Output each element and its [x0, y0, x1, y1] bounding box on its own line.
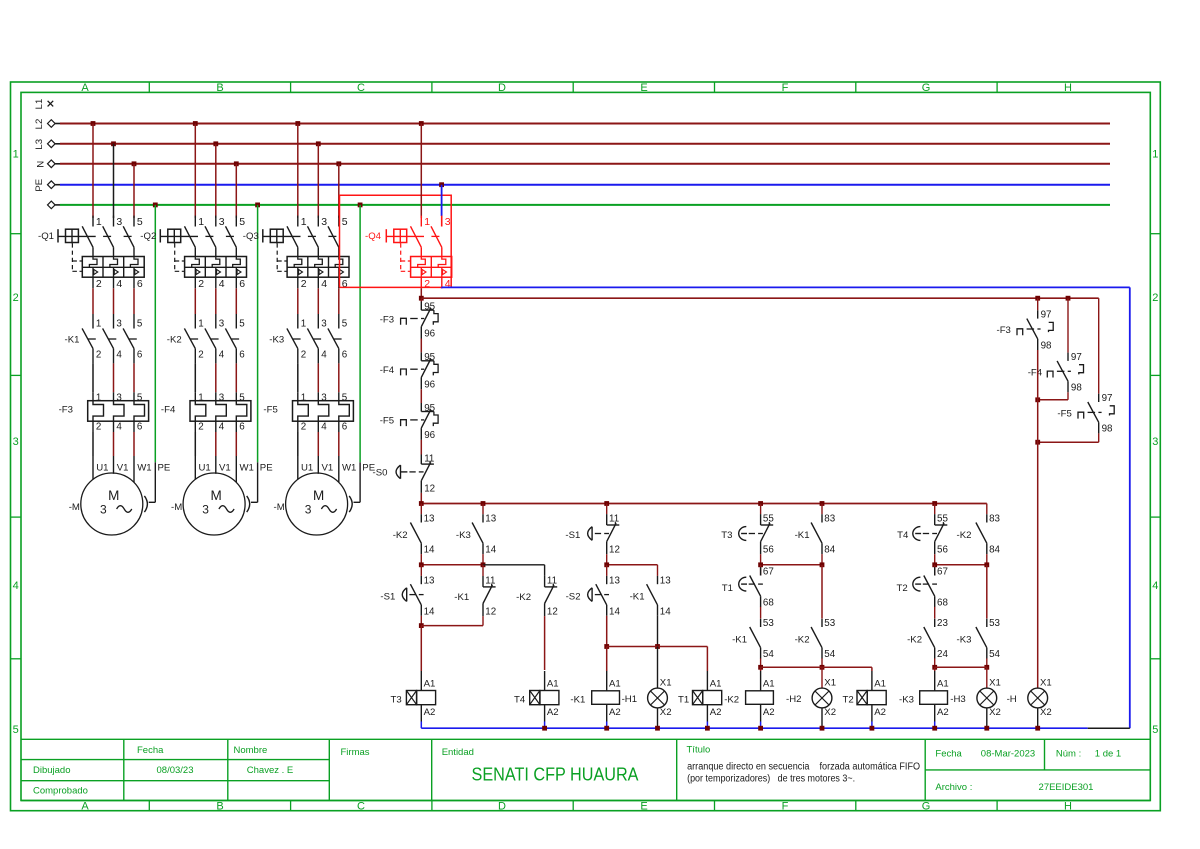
circuit breaker Q3 — [243, 216, 349, 290]
thermal overload relay F4 — [161, 392, 251, 432]
wire Q2 to K2 — [195, 288, 236, 328]
svg-text:53: 53 — [989, 618, 1000, 629]
junction wire K2 coil group — [758, 665, 872, 671]
svg-text:11: 11 — [424, 454, 434, 465]
svg-text:Comprobado: Comprobado — [33, 786, 88, 797]
svg-text:54: 54 — [989, 649, 1000, 660]
svg-text:A: A — [81, 801, 89, 813]
svg-text:A1: A1 — [547, 679, 559, 690]
wire PE drop to motor M2 — [251, 203, 273, 503]
svg-text:-S1: -S1 — [565, 530, 580, 541]
svg-text:14: 14 — [424, 606, 435, 617]
lamp H2 — [786, 678, 836, 729]
wire L2 drop to Q3 pin1 — [295, 121, 300, 218]
bus ground green — [48, 201, 1111, 209]
stop contact S1 11-12 row1 — [565, 504, 620, 565]
svg-text:-S1: -S1 — [380, 592, 395, 603]
svg-text:-K2: -K2 — [393, 530, 408, 541]
svg-text:4: 4 — [13, 580, 19, 592]
wire F5 to motor M3 — [298, 421, 357, 482]
wire K2 to F4 — [195, 363, 236, 400]
svg-text:11: 11 — [485, 576, 495, 587]
wire PE drop to motor M1 — [149, 203, 171, 503]
svg-text:M: M — [313, 488, 324, 503]
bus L2 — [34, 119, 1110, 130]
svg-text:98: 98 — [1071, 383, 1082, 394]
svg-text:1: 1 — [13, 149, 19, 161]
svg-text:2: 2 — [301, 350, 306, 361]
svg-text:Dibujado: Dibujado — [33, 765, 71, 776]
svg-text:-S0: -S0 — [373, 468, 388, 479]
wire Q4 pin2 down to control circuit — [420, 288, 422, 298]
timer contact T4 55-56 row1 — [897, 504, 948, 565]
motor M3 — [274, 473, 348, 535]
wire K1 to F3 — [93, 363, 134, 400]
red highlight box around Q4 — [340, 195, 452, 287]
svg-text:4: 4 — [219, 350, 225, 361]
thermal contact F5 95-96 — [380, 403, 438, 441]
svg-text:1: 1 — [301, 392, 306, 403]
svg-text:98: 98 — [1102, 424, 1113, 435]
svg-text:4: 4 — [116, 350, 122, 361]
svg-text:T4: T4 — [514, 695, 526, 706]
svg-text:2: 2 — [198, 278, 204, 290]
svg-text:-K3: -K3 — [456, 530, 471, 541]
svg-text:A1: A1 — [937, 679, 949, 690]
svg-text:L1: L1 — [34, 99, 45, 110]
circuit breaker Q4 — [365, 216, 452, 290]
svg-text:83: 83 — [989, 514, 1000, 525]
svg-text:A2: A2 — [937, 707, 949, 718]
svg-text:F: F — [782, 801, 789, 813]
svg-text:Fecha: Fecha — [137, 745, 164, 756]
thermal overload relay F5 — [263, 392, 353, 432]
svg-text:X1: X1 — [824, 678, 836, 689]
svg-text:1: 1 — [96, 392, 101, 403]
svg-text:-M: -M — [171, 502, 182, 513]
svg-text:A1: A1 — [874, 679, 886, 690]
svg-text:67: 67 — [763, 567, 774, 578]
wire F5 96 to S0 11 — [420, 440, 422, 464]
svg-text:6: 6 — [342, 278, 348, 290]
stop pushbutton S0 11-12 — [373, 454, 436, 495]
svg-text:2: 2 — [424, 278, 430, 290]
svg-text:5: 5 — [13, 724, 19, 736]
svg-text:4: 4 — [321, 350, 327, 361]
svg-text:3: 3 — [219, 319, 225, 330]
svg-text:2: 2 — [96, 350, 101, 361]
title block date and number — [935, 749, 1121, 794]
svg-text:1: 1 — [198, 216, 204, 228]
svg-text:6: 6 — [239, 350, 245, 361]
thermal contact F5 97-98 — [1057, 298, 1114, 435]
svg-text:X1: X1 — [989, 678, 1001, 689]
junction wire K3 coil group — [932, 665, 989, 670]
motor M1 PE terminal bracket — [144, 496, 147, 512]
svg-text:-F4: -F4 — [161, 405, 176, 416]
wire F3 96 to F4 95 — [420, 339, 422, 361]
svg-text:A2: A2 — [874, 707, 886, 718]
svg-text:G: G — [922, 801, 931, 813]
svg-text:1: 1 — [301, 216, 307, 228]
svg-text:4: 4 — [219, 278, 225, 290]
svg-text:X2: X2 — [824, 707, 836, 718]
svg-text:Nombre: Nombre — [234, 745, 268, 756]
svg-text:C: C — [357, 801, 365, 813]
timer coil T2 — [843, 671, 887, 728]
wire K2 coil drop — [760, 667, 762, 671]
svg-text:-K2: -K2 — [724, 695, 739, 706]
svg-text:U1: U1 — [199, 463, 211, 474]
bus PE blue — [34, 179, 1110, 192]
svg-text:-S2: -S2 — [566, 592, 581, 603]
svg-text:B: B — [216, 82, 223, 94]
wire Q1 to K1 — [93, 288, 134, 328]
svg-text:6: 6 — [137, 278, 143, 290]
svg-text:12: 12 — [609, 545, 620, 556]
svg-text:11: 11 — [609, 514, 619, 525]
title block left labels — [33, 745, 293, 797]
title block grid — [21, 739, 1150, 800]
svg-text:-M: -M — [274, 502, 285, 513]
svg-text:5: 5 — [1152, 724, 1158, 736]
svg-text:5: 5 — [239, 319, 245, 330]
svg-text:55: 55 — [763, 514, 774, 525]
svg-text:98: 98 — [1041, 340, 1052, 351]
contactor K3 main contacts — [269, 319, 347, 364]
contactor coil K2 — [724, 671, 774, 728]
svg-text:H: H — [1064, 801, 1072, 813]
wire PE drop to motor M3 — [354, 203, 376, 503]
svg-text:1: 1 — [198, 392, 203, 403]
svg-text:13: 13 — [609, 575, 620, 586]
svg-text:96: 96 — [424, 430, 435, 441]
svg-text:-H1: -H1 — [622, 694, 637, 705]
svg-text:1: 1 — [96, 319, 101, 330]
wire H3 lamp drop — [986, 667, 988, 688]
bus L3 — [34, 139, 1110, 150]
lamp H alarm — [1007, 678, 1052, 729]
svg-text:6: 6 — [239, 278, 245, 290]
blue N line horizontal — [442, 286, 1130, 288]
frame column letters bottom — [81, 801, 1072, 813]
svg-text:A2: A2 — [424, 707, 436, 718]
wire H2 lamp drop — [821, 667, 823, 688]
svg-text:-F3: -F3 — [59, 405, 73, 416]
lamp H3 — [950, 678, 1001, 729]
title block entidad label — [442, 747, 474, 758]
wire K1 83-84 down to K2 53 — [821, 565, 823, 619]
wire S0 12 to control rail — [420, 493, 422, 504]
auxiliary contact K3 53-54 — [957, 618, 1001, 667]
svg-text:arranque directo en secuencia: arranque directo en secuencia forzada au… — [687, 762, 920, 773]
circuit breaker Q1 — [38, 216, 144, 290]
svg-text:-F3: -F3 — [997, 325, 1011, 336]
svg-text:-K1: -K1 — [630, 592, 645, 603]
svg-text:14: 14 — [660, 606, 671, 617]
svg-text:N: N — [36, 161, 47, 168]
svg-text:T3: T3 — [391, 695, 402, 706]
svg-text:23: 23 — [937, 618, 948, 629]
svg-text:97: 97 — [1102, 393, 1113, 404]
svg-text:56: 56 — [763, 545, 774, 556]
svg-text:-Q3: -Q3 — [243, 231, 259, 242]
svg-text:A1: A1 — [424, 679, 436, 690]
svg-text:-F4: -F4 — [1028, 367, 1043, 378]
svg-text:97: 97 — [1071, 352, 1082, 363]
frame column letters top — [81, 82, 1072, 94]
svg-text:Firmas: Firmas — [341, 747, 370, 758]
wire F3 to motor M1 — [93, 421, 152, 482]
svg-text:5: 5 — [137, 392, 143, 403]
svg-text:14: 14 — [609, 606, 620, 617]
svg-text:5: 5 — [342, 392, 348, 403]
svg-text:6: 6 — [137, 350, 143, 361]
svg-text:3: 3 — [100, 503, 107, 517]
svg-text:2: 2 — [198, 350, 203, 361]
svg-text:Chavez . E: Chavez . E — [247, 765, 293, 776]
motor M2 PE terminal bracket — [247, 496, 250, 512]
junction row wire K3 to K2 black — [483, 565, 545, 576]
svg-text:6: 6 — [137, 422, 143, 433]
thermal contact F4 97-98 — [1028, 298, 1084, 393]
start pushbutton S1 13-14 row2 — [380, 565, 435, 626]
wire control feed to right alarm chain — [421, 296, 1098, 301]
svg-text:-K1: -K1 — [65, 335, 80, 346]
svg-text:6: 6 — [342, 350, 348, 361]
svg-text:T1: T1 — [678, 695, 689, 706]
svg-text:4: 4 — [1152, 580, 1158, 592]
svg-text:A1: A1 — [763, 679, 775, 690]
svg-text:A2: A2 — [763, 707, 775, 718]
bus N — [36, 160, 1110, 168]
svg-text:W1: W1 — [342, 463, 356, 474]
svg-text:3: 3 — [321, 216, 327, 228]
svg-text:12: 12 — [485, 607, 496, 618]
svg-text:4: 4 — [321, 278, 327, 290]
svg-text:1: 1 — [301, 319, 306, 330]
svg-text:2: 2 — [301, 422, 306, 433]
wire K3 to F5 — [298, 363, 339, 400]
wire F4 to motor M2 — [195, 421, 254, 482]
svg-text:08/03/23: 08/03/23 — [157, 765, 194, 776]
svg-text:X2: X2 — [989, 707, 1001, 718]
auxiliary contact K2 11-12 row2 — [516, 576, 558, 671]
svg-text:F: F — [782, 82, 789, 94]
svg-text:-F4: -F4 — [380, 365, 395, 376]
svg-text:12: 12 — [424, 483, 435, 494]
svg-text:T2: T2 — [843, 695, 854, 706]
svg-text:-K3: -K3 — [269, 335, 284, 346]
svg-text:-F5: -F5 — [1057, 408, 1071, 419]
svg-text:E: E — [640, 82, 647, 94]
svg-text:5: 5 — [239, 392, 245, 403]
wire K2 83-84 down to K3 53 — [986, 565, 988, 619]
svg-text:96: 96 — [424, 379, 435, 390]
wire L2 drop to Q1 pin1 — [91, 121, 96, 218]
svg-text:6: 6 — [342, 422, 348, 433]
frame row ticks right — [1150, 234, 1160, 659]
svg-text:G: G — [922, 82, 931, 94]
svg-text:1: 1 — [96, 216, 102, 228]
svg-text:-K2: -K2 — [516, 592, 531, 603]
timer coil T3 — [391, 671, 436, 728]
wire N drop to Q1 pin5 — [132, 161, 137, 218]
motor M3 PE terminal bracket — [349, 496, 352, 512]
drawing frame inner border — [21, 92, 1150, 800]
svg-text:68: 68 — [937, 598, 948, 609]
svg-text:2: 2 — [13, 292, 19, 304]
svg-text:24: 24 — [937, 649, 948, 660]
svg-text:A2: A2 — [710, 707, 722, 718]
svg-text:-Q1: -Q1 — [38, 231, 54, 242]
junction row wire S1 to K1 aux — [604, 562, 657, 576]
svg-text:5: 5 — [342, 319, 348, 330]
circuit breaker Q2 — [140, 216, 246, 290]
svg-text:53: 53 — [824, 618, 835, 629]
wire L3 drop to Q1 pin3 — [111, 141, 116, 218]
junction row wire S1 to K3 — [419, 562, 486, 567]
svg-text:H: H — [1064, 82, 1072, 94]
svg-text:1: 1 — [424, 216, 430, 228]
svg-text:SENATI CFP HUAURA: SENATI CFP HUAURA — [472, 764, 640, 785]
auxiliary contact K1 53-54 — [732, 618, 774, 667]
svg-text:3: 3 — [219, 216, 225, 228]
svg-text:Archivo :: Archivo : — [935, 782, 972, 793]
svg-text:L3: L3 — [34, 139, 45, 150]
wire Q3 to K3 — [298, 288, 339, 328]
wire N drop to Q2 pin5 — [234, 161, 239, 218]
svg-text:-K1: -K1 — [454, 592, 469, 603]
svg-text:55: 55 — [937, 514, 948, 525]
svg-text:3: 3 — [1152, 436, 1158, 448]
wire L3 drop to Q2 pin3 — [213, 141, 218, 218]
frame row numbers left — [13, 149, 19, 737]
svg-text:68: 68 — [763, 598, 774, 609]
svg-text:-Q4: -Q4 — [365, 231, 382, 242]
frame column ticks bottom — [149, 801, 997, 812]
svg-text:5: 5 — [342, 216, 348, 228]
title block titulo — [687, 745, 921, 785]
wire alarm chain down to H lamp — [1037, 350, 1039, 688]
wire F4 98 to alarm node — [1035, 392, 1068, 402]
svg-text:A1: A1 — [609, 679, 621, 690]
svg-text:3: 3 — [321, 392, 327, 403]
blue N line vertical right side — [1129, 287, 1131, 728]
contactor coil K1 — [570, 671, 620, 728]
svg-text:V1: V1 — [117, 463, 129, 474]
svg-text:-H3: -H3 — [950, 694, 965, 705]
svg-text:54: 54 — [824, 649, 835, 660]
svg-text:3: 3 — [116, 216, 122, 228]
svg-text:-F3: -F3 — [380, 314, 394, 325]
svg-text:3: 3 — [219, 392, 225, 403]
svg-text:4: 4 — [116, 278, 122, 290]
control top rail — [421, 503, 987, 505]
svg-text:3: 3 — [13, 436, 19, 448]
svg-text:M: M — [210, 488, 221, 503]
wire K1 coil drop — [606, 647, 608, 672]
svg-text:1: 1 — [198, 319, 203, 330]
thermal contact F4 95-96 — [380, 352, 438, 390]
contactor K2 main contacts — [167, 319, 245, 364]
svg-text:5: 5 — [239, 216, 245, 228]
svg-text:13: 13 — [660, 575, 671, 586]
svg-text:-K2: -K2 — [907, 634, 922, 645]
wire N drop to Q3 pin5 — [336, 161, 341, 218]
junction row wire T3 to K1 — [758, 562, 824, 567]
svg-text:-K2: -K2 — [957, 530, 972, 541]
svg-text:13: 13 — [424, 514, 435, 525]
svg-text:PE: PE — [158, 463, 171, 474]
svg-text:-K1: -K1 — [570, 695, 585, 706]
svg-text:83: 83 — [824, 514, 835, 525]
svg-text:5: 5 — [137, 216, 143, 228]
svg-text:C: C — [357, 82, 365, 94]
svg-text:T4: T4 — [897, 530, 909, 541]
node control feed junction — [419, 296, 424, 301]
svg-text:-K2: -K2 — [167, 335, 182, 346]
svg-text:1 de 1: 1 de 1 — [1095, 749, 1121, 760]
wire control feed to F3 95 — [420, 298, 422, 310]
svg-text:V1: V1 — [322, 463, 334, 474]
svg-text:T1: T1 — [722, 583, 733, 594]
svg-text:14: 14 — [485, 545, 496, 556]
svg-text:4: 4 — [116, 422, 122, 433]
svg-text:B: B — [216, 801, 223, 813]
wire Q4 pin4 to blue N line — [441, 286, 443, 289]
svg-text:T2: T2 — [897, 583, 908, 594]
svg-text:M: M — [108, 488, 119, 503]
svg-text:2: 2 — [301, 278, 307, 290]
svg-text:U1: U1 — [301, 463, 313, 474]
auxiliary contact K2 13-14 row1 — [393, 504, 435, 565]
svg-text:L2: L2 — [34, 119, 45, 130]
svg-text:A2: A2 — [609, 707, 621, 718]
node bottom rail dots — [542, 726, 1040, 731]
frame row ticks left — [11, 234, 22, 659]
svg-text:A1: A1 — [710, 679, 722, 690]
svg-text:13: 13 — [424, 575, 435, 586]
wire H1 lamp drop — [657, 647, 659, 689]
junction wire S2 to K1 aux to T1 coil — [604, 644, 707, 671]
svg-text:3: 3 — [445, 216, 451, 228]
svg-text:A: A — [81, 82, 89, 94]
svg-text:X2: X2 — [660, 707, 672, 718]
wire K3 coil drop — [934, 667, 936, 671]
lamp H1 — [622, 678, 672, 729]
start pushbutton S2 13-14 row2 — [566, 565, 621, 647]
timer contact T1 67-68 row2 — [722, 565, 775, 619]
thermal contact F3 95-96 — [380, 301, 438, 339]
svg-text:96: 96 — [424, 329, 435, 340]
motor M1 — [69, 473, 143, 535]
auxiliary contact K1 11-12 row2 — [454, 565, 496, 626]
wire L2 drop to Q4 pin1 — [419, 121, 424, 218]
svg-text:2: 2 — [198, 422, 203, 433]
svg-text:2: 2 — [96, 278, 102, 290]
svg-text:2: 2 — [1152, 292, 1158, 304]
thermal overload relay F3 — [59, 392, 149, 432]
timer coil T1 — [678, 671, 722, 728]
svg-text:Entidad: Entidad — [442, 747, 474, 758]
svg-text:4: 4 — [321, 422, 327, 433]
svg-text:-K1: -K1 — [795, 530, 810, 541]
svg-text:2: 2 — [96, 422, 101, 433]
auxiliary contact K2 23-24 — [907, 618, 948, 667]
wire F4 96 to F5 95 — [420, 389, 422, 411]
node rail dots — [419, 501, 937, 506]
